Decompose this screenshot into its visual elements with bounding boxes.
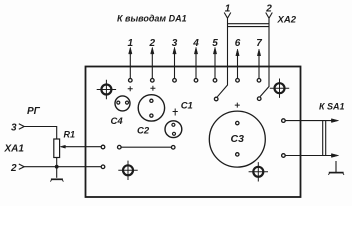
wire contact3 to R1 bbox=[24, 127, 57, 140]
capacitor C1 bbox=[165, 121, 182, 138]
wire board trace bbox=[121, 146, 171, 148]
pad XA2-1 bbox=[214, 97, 218, 101]
XA2 contact 1 fork bbox=[224, 13, 231, 19]
junction dot bbox=[55, 165, 59, 169]
svg-text:К SA1: К SA1 bbox=[319, 102, 345, 112]
mounting hole top-left bbox=[97, 80, 116, 99]
C4 polarity plus bbox=[128, 86, 133, 91]
svg-text:С3: С3 bbox=[231, 133, 245, 145]
XA1 contact 2 fork bbox=[19, 164, 24, 169]
pin 5 bbox=[212, 38, 218, 82]
pin 6 bbox=[235, 38, 241, 82]
pin 1 bbox=[128, 38, 134, 82]
mounting hole top-right bbox=[270, 79, 289, 98]
wire SA1 bottom with arrow bbox=[285, 154, 338, 158]
XA2 contact 2 fork bbox=[266, 13, 273, 19]
svg-text:К выводам DA1: К выводам DA1 bbox=[117, 14, 187, 24]
svg-text:ХА2: ХА2 bbox=[277, 15, 297, 26]
svg-text:6: 6 bbox=[235, 38, 241, 49]
wire SA1 top with arrow bbox=[285, 119, 338, 123]
svg-text:3: 3 bbox=[11, 123, 17, 134]
svg-text:2: 2 bbox=[10, 163, 17, 174]
pad SA1 top bbox=[282, 119, 286, 123]
mounting hole bottom-left bbox=[118, 161, 137, 180]
pad SA1 bottom bbox=[282, 154, 286, 158]
capacitor C2 bbox=[138, 95, 164, 121]
pad wiper bbox=[101, 145, 105, 149]
svg-text:4: 4 bbox=[192, 38, 199, 49]
capacitor C3 bbox=[209, 111, 265, 167]
svg-text:1: 1 bbox=[225, 4, 231, 15]
wire contact2 to pad bbox=[24, 166, 101, 168]
wire XA2-2 to pad bbox=[260, 18, 269, 96]
pad contact2 wire bbox=[101, 165, 105, 169]
wire junction to ground bbox=[56, 167, 58, 178]
ground right bbox=[328, 161, 344, 175]
svg-text:ХА1: ХА1 bbox=[4, 144, 25, 155]
pad XA2-2 bbox=[257, 97, 261, 101]
svg-text:R1: R1 bbox=[64, 130, 76, 140]
C3 polarity plus bbox=[235, 103, 240, 108]
board trace pad right bbox=[171, 146, 175, 150]
SA1 cable (double line) bbox=[323, 121, 326, 156]
svg-text:С1: С1 bbox=[181, 100, 193, 111]
svg-text:РГ: РГ bbox=[27, 106, 41, 117]
svg-text:7: 7 bbox=[256, 38, 262, 49]
pin 7 bbox=[256, 38, 262, 82]
wire XA2-1 to pad bbox=[217, 18, 227, 97]
svg-text:С2: С2 bbox=[137, 126, 150, 137]
C1 polarity plus bbox=[173, 109, 178, 116]
R1 wiper wire with arrow bbox=[60, 145, 101, 148]
pin 2 bbox=[149, 38, 156, 82]
resistor R1 bbox=[54, 139, 60, 158]
svg-text:2: 2 bbox=[149, 38, 156, 49]
mounting hole bottom-right bbox=[249, 162, 268, 181]
XA1 contact 3 fork bbox=[19, 124, 24, 129]
capacitor C4 bbox=[115, 96, 130, 111]
wire R1 bottom to junction bbox=[56, 158, 58, 167]
C2 polarity plus bbox=[150, 86, 155, 91]
board outline bbox=[86, 67, 301, 198]
XA2 cable (double line) bbox=[228, 24, 270, 27]
board trace pad left bbox=[118, 145, 122, 149]
pin 4 bbox=[192, 38, 199, 82]
svg-text:С4: С4 bbox=[111, 116, 124, 127]
ground left bbox=[50, 179, 63, 181]
pin 3 bbox=[172, 38, 178, 82]
